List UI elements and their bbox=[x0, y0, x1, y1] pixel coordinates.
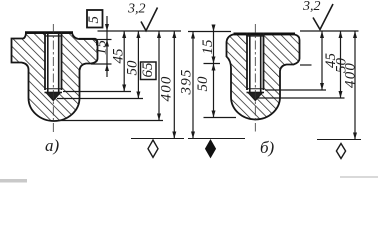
hole A thread end line bbox=[45, 88, 62, 90]
extension line bulb bottom (fig a) bbox=[59, 120, 163, 122]
svg-text:395: 395 bbox=[179, 68, 195, 95]
dimension 15 (fig a) bbox=[94, 31, 110, 77]
part A outline bbox=[12, 33, 98, 121]
svg-text:3,2: 3,2 bbox=[302, 0, 321, 14]
extension line drill tip (fig b) bbox=[257, 97, 345, 99]
boxed dimension 5 bbox=[86, 10, 103, 28]
chain dimension 50 (fig b left) bbox=[195, 64, 216, 118]
gray artifact line bottom right bbox=[340, 176, 378, 178]
extension line top surface (fig a) bbox=[98, 30, 182, 32]
part A top surface thick line bbox=[25, 31, 73, 34]
datum line left (open diamond) bbox=[131, 138, 184, 140]
extension line right step surface bbox=[96, 39, 112, 41]
extension line underside (fig a) bbox=[91, 63, 112, 65]
dimension 45 (fig a) bbox=[111, 31, 127, 92]
datum line right (open diamond) bbox=[317, 139, 361, 141]
extension line left ledge (fig b) bbox=[204, 63, 221, 65]
hole A flat bottom bbox=[45, 92, 63, 94]
threaded hole A walls bbox=[45, 32, 63, 93]
hole A mouth chamfer bbox=[45, 35, 63, 37]
hole B (white slot) bbox=[247, 32, 264, 93]
gray artifact line bottom left bbox=[0, 179, 27, 183]
dimension 50 (fig a) bbox=[125, 31, 141, 99]
threaded hole B walls bbox=[247, 33, 265, 93]
hole A (white slot) bbox=[45, 31, 62, 93]
hole A drill point bbox=[46, 93, 61, 101]
svg-text:50: 50 bbox=[125, 60, 141, 76]
svg-text:3,2: 3,2 bbox=[127, 2, 146, 17]
dimension 400 (fig b) bbox=[343, 31, 359, 140]
roughness mark 3,2 (fig b) bbox=[302, 0, 333, 30]
extension line top surface left (fig b) bbox=[188, 31, 231, 33]
dimension 400 (fig a) bbox=[159, 31, 177, 139]
hole B flat bottom bbox=[247, 92, 265, 94]
leader arrow of boxed 5 bbox=[105, 16, 109, 31]
svg-text:65: 65 bbox=[140, 62, 156, 78]
dimension 45 (fig b) bbox=[320, 31, 339, 90]
centerline B bbox=[254, 24, 256, 132]
svg-text:50: 50 bbox=[195, 76, 211, 92]
svg-text:5: 5 bbox=[86, 16, 102, 24]
part B outline bbox=[227, 35, 300, 120]
extension line bulb bottom (fig b) bbox=[204, 117, 237, 119]
open diamond (left datum) bbox=[148, 140, 158, 157]
extension line top surface right (fig b) bbox=[300, 30, 359, 32]
chain dimension 15 (fig b left) bbox=[200, 25, 216, 64]
hole B thread end line bbox=[247, 88, 264, 90]
extension line hole flat bottom (fig a) bbox=[63, 91, 131, 93]
datum line middle (filled diamond) bbox=[188, 138, 245, 140]
filled diamond (middle datum) bbox=[206, 140, 216, 157]
hole B mouth chamfer bbox=[247, 35, 265, 37]
junction dot on step extension bbox=[94, 38, 97, 41]
open diamond (right datum) bbox=[336, 144, 345, 159]
roughness mark 3,2 (fig a) bbox=[127, 2, 158, 31]
dimension 50 (fig b) bbox=[334, 31, 350, 98]
svg-text:б): б) bbox=[260, 138, 275, 157]
svg-text:а): а) bbox=[45, 136, 60, 155]
part B body with hatching bbox=[227, 35, 300, 120]
svg-text:15: 15 bbox=[94, 40, 110, 56]
extension line hole flat bottom (fig b) bbox=[265, 89, 326, 91]
extension line right ledge (fig b) bbox=[300, 64, 312, 66]
extension line drill tip (fig a) bbox=[57, 98, 143, 100]
boxed dimension 65 (fig a) bbox=[140, 31, 161, 121]
svg-text:400: 400 bbox=[343, 62, 359, 88]
svg-text:400: 400 bbox=[159, 75, 175, 101]
hole B drill point bbox=[248, 93, 263, 101]
svg-text:15: 15 bbox=[200, 39, 216, 55]
part A body with hatching bbox=[12, 33, 98, 121]
part B top surface thick line bbox=[234, 32, 296, 35]
centerline A bbox=[52, 24, 54, 132]
